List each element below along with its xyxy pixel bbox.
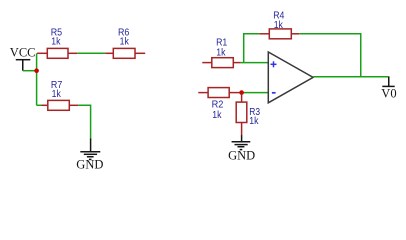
port V0 terminal symbol [382, 76, 394, 86]
wire R2 node to op-amp minus input [242, 92, 269, 94]
resistor R2 [198, 88, 239, 98]
wire VCC to junction [23, 70, 37, 72]
junction dot at minus node [239, 90, 244, 95]
junction dot at VCC node [34, 68, 39, 73]
op-amp plus input marker [271, 61, 277, 67]
ground symbol right [232, 135, 251, 150]
resistor R4 [259, 29, 299, 39]
wire R4 to output node [299, 34, 360, 77]
resistor R7 [42, 100, 79, 110]
svg-text:1k: 1k [120, 35, 130, 47]
op-amp U1 [268, 52, 313, 103]
wire R7 to ground [78, 105, 90, 138]
svg-text:1k: 1k [216, 46, 226, 58]
svg-text:GND: GND [76, 157, 103, 171]
resistor R6 [105, 48, 145, 58]
wire R5 to R6 [77, 52, 105, 54]
svg-text:1k: 1k [212, 109, 222, 121]
wire R1 to op-amp plus input [241, 62, 269, 64]
wire plus node up to R4 [244, 34, 260, 63]
resistor R1 [202, 58, 240, 68]
svg-text:1k: 1k [274, 19, 284, 31]
svg-text:1k: 1k [52, 88, 62, 100]
power VCC terminal symbol [16, 60, 30, 71]
wire vertical R5/R7 bus [36, 53, 38, 105]
svg-text:1k: 1k [51, 35, 61, 47]
ground symbol left [80, 139, 100, 160]
svg-text:GND: GND [228, 149, 255, 163]
op-amp minus input marker [272, 92, 276, 94]
wire junction to R7 [37, 104, 42, 106]
wire op-amp output [313, 76, 388, 78]
svg-text:VCC: VCC [10, 46, 36, 60]
svg-text:V0: V0 [381, 86, 396, 100]
resistor R5 [37, 48, 77, 58]
svg-text:1k: 1k [249, 115, 259, 127]
resistor R3 [236, 93, 247, 136]
